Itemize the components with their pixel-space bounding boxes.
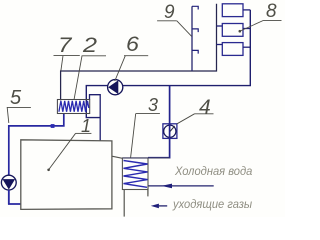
leader 8 <box>240 20 263 31</box>
shelf 1 <box>76 132 92 134</box>
radiator 8a <box>222 4 243 17</box>
label 2 <box>83 34 97 58</box>
shelf 5 <box>7 106 31 108</box>
flue duct right wall <box>147 190 149 197</box>
water meter 4 circle <box>164 125 176 137</box>
wire left stub radiator 2 <box>217 25 223 27</box>
label 9 <box>164 2 175 24</box>
wire through meter <box>169 124 171 139</box>
text cold water <box>175 166 252 178</box>
cold water arrowhead <box>161 184 172 189</box>
hook 1 on riser 9 <box>192 6 198 9</box>
wire left stub radiator 3 <box>217 44 223 46</box>
leader 3 <box>131 114 136 158</box>
label 6 <box>126 33 139 57</box>
wire return line from radiators through pump 6 <box>86 10 250 118</box>
flue gas arrowhead <box>151 204 159 209</box>
heat exchanger 2 box <box>57 100 89 114</box>
wire air riser 9 <box>191 6 193 71</box>
wire meter branch lower to coil <box>148 138 170 157</box>
flue duct left wall <box>123 190 125 217</box>
leader 9 <box>177 21 192 37</box>
shelf 9 <box>157 20 177 22</box>
wire right stub radiator 3 <box>243 46 250 48</box>
wire supply riser from heat exchanger to radiators <box>61 4 217 100</box>
wire meter branch upper <box>169 86 171 124</box>
shelf 6 <box>124 55 148 57</box>
water meter 4 pointer <box>170 126 175 132</box>
boiler 1 <box>21 140 112 210</box>
wire right stub radiator 2 <box>243 28 250 30</box>
radiator 8b <box>222 24 243 37</box>
node square junction <box>51 124 55 128</box>
pump 5 pipe through <box>8 190 10 204</box>
label 8 <box>266 1 277 23</box>
pump 6 <box>108 80 123 95</box>
coil 3 zigzag <box>124 161 148 188</box>
leader 2 <box>74 56 82 100</box>
shelf 4 <box>195 113 214 115</box>
cold water line <box>148 185 214 187</box>
wire right stub radiator 1 <box>243 9 250 11</box>
leader 4 <box>177 114 195 124</box>
leader 1 <box>49 133 76 169</box>
wire heat exchanger outlet to pump 5 to boiler bottom <box>9 114 64 205</box>
text flue gases <box>173 199 252 211</box>
heat exchanger 2 zigzag <box>59 101 89 112</box>
shelf 3 <box>136 113 160 115</box>
cold water stub below entry <box>147 186 149 195</box>
hook 3 on riser 9 <box>192 50 198 53</box>
shelf 8 <box>264 19 282 21</box>
label 7 <box>58 34 71 58</box>
leader 6 <box>115 56 126 81</box>
flue gas arrow <box>159 205 168 207</box>
hook 2 on riser 9 <box>192 29 198 32</box>
coil 3 box <box>122 158 148 190</box>
shelf 2 <box>82 55 106 57</box>
pump 5 <box>1 175 16 190</box>
label 5 <box>10 87 21 110</box>
leader 5 <box>7 108 9 123</box>
coil 3 top edge to meter pipe <box>122 157 169 159</box>
label 1 <box>81 116 91 137</box>
boiler to coil stub <box>112 156 123 158</box>
shelf 7 <box>54 55 80 57</box>
leader 7 <box>61 56 63 71</box>
radiator 8c <box>222 43 243 56</box>
label 4 <box>199 96 211 120</box>
water meter 4 square <box>163 124 177 139</box>
label 3 <box>148 95 158 116</box>
wire heat exchanger to boiler top <box>90 95 101 141</box>
